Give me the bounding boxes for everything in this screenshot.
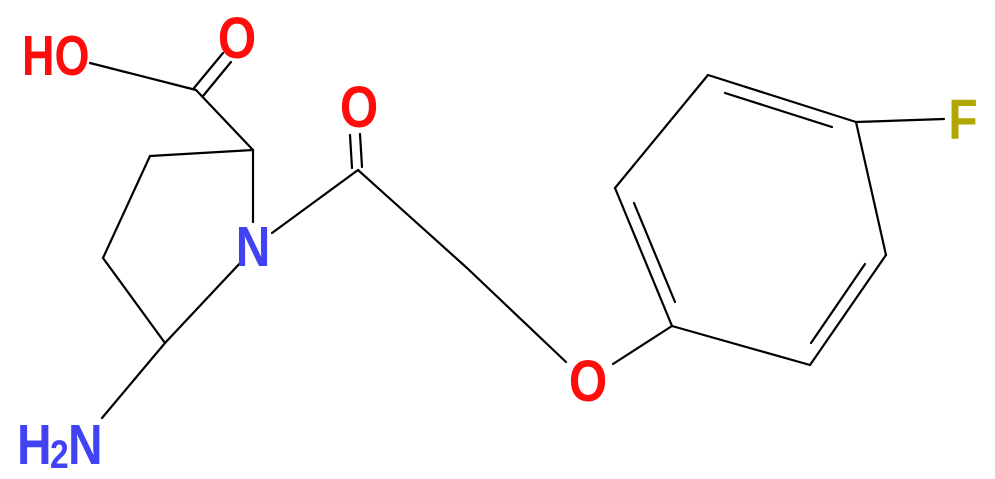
benzene edge V4-V5 — [810, 255, 886, 365]
benzene edge V3-V4 — [856, 122, 886, 255]
wire: ether O to ring V6 — [613, 326, 672, 364]
wire: amide C=O double bond line 2 — [360, 134, 362, 167]
wire: C1=O acid double bond line 2 — [203, 62, 231, 96]
wire: amide C to CH2 — [358, 170, 467, 268]
benzene edge V2-V3 — [708, 75, 856, 122]
wire: ring C4 to C5 — [103, 258, 165, 343]
benzene inner double V6-V1 — [634, 203, 675, 302]
svg-text:2: 2 — [50, 432, 69, 476]
svg-text:O: O — [218, 6, 256, 71]
svg-text:N: N — [236, 215, 271, 279]
benzene inner double V4-V5 — [811, 264, 865, 343]
wire: ring C2 to N vertical — [252, 150, 254, 222]
wire: ring C5 to N — [165, 261, 242, 343]
wire: C5 to H2N bond — [102, 343, 165, 418]
svg-text:N: N — [68, 413, 103, 477]
svg-text:O: O — [340, 75, 378, 140]
wire: ring C3 to C4 — [103, 156, 150, 258]
wire: C1=O acid double bond line 1 — [194, 53, 223, 88]
wire: C1 to ring C2 — [196, 90, 253, 150]
svg-text:H: H — [17, 413, 52, 477]
wire: ring C2 to C3 — [150, 150, 253, 156]
wire: V3 to F bond — [856, 119, 944, 122]
benzene edge V6-V1 — [615, 188, 672, 326]
svg-text:F: F — [948, 88, 977, 152]
wire: amide C=O double bond line 1 — [350, 135, 352, 168]
benzene edge V1-V2 — [615, 75, 708, 188]
wire: N to amide C — [272, 170, 358, 233]
svg-text:HO: HO — [22, 24, 90, 87]
wire: CH2 to ether O — [467, 268, 566, 362]
benzene edge V5-V6 — [672, 326, 810, 365]
svg-text:O: O — [569, 349, 607, 414]
wire: HO to C1 bond — [90, 63, 196, 90]
benzene inner double V2-V3 — [725, 93, 832, 127]
